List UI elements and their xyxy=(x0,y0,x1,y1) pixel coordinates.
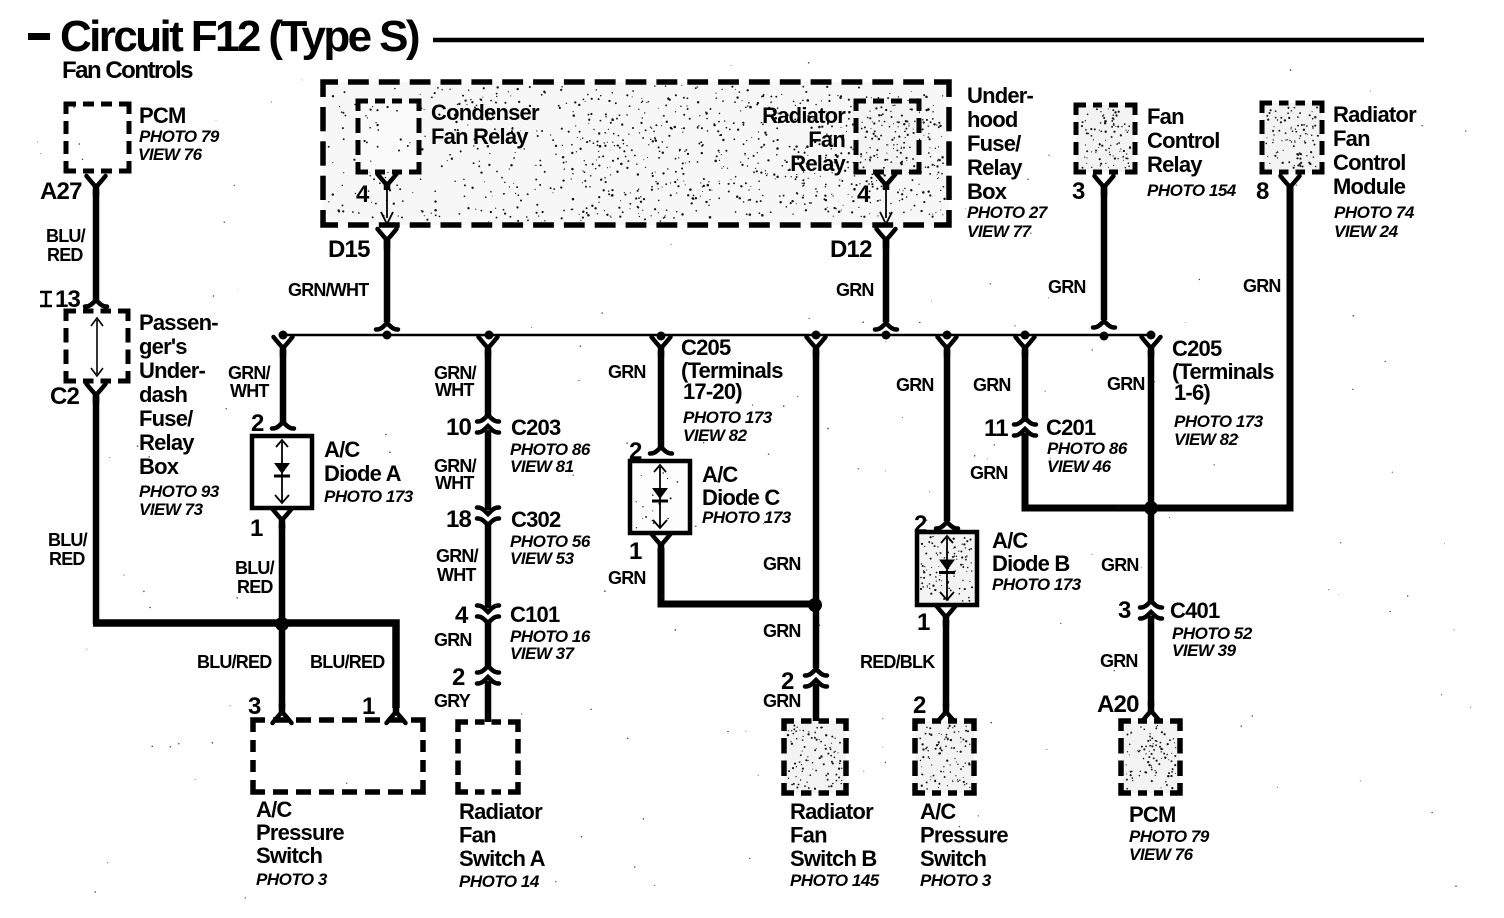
wire A27 BLU/RED vertical xyxy=(93,190,100,300)
svg-text:PHOTO 173: PHOTO 173 xyxy=(324,487,414,506)
connector below bus (C201 branch) xyxy=(1016,337,1035,357)
svg-text:hood: hood xyxy=(967,107,1018,132)
wire: radiator relay pin 4 to box edge (arrow) xyxy=(880,188,892,224)
svg-text:A/C: A/C xyxy=(920,799,956,824)
label RED/BLK xyxy=(860,652,935,672)
label GRN/WHT (above C203) xyxy=(434,363,477,400)
connector D12 at underhood box xyxy=(877,229,896,249)
svg-text:GRN: GRN xyxy=(896,375,934,395)
svg-text:Box: Box xyxy=(139,454,180,479)
svg-text:VIEW 53: VIEW 53 xyxy=(510,549,575,568)
wire GRN/WHT to C203 xyxy=(485,350,492,418)
svg-text:BLU/RED: BLU/RED xyxy=(310,652,385,672)
pin 1 (diode B) xyxy=(917,609,930,636)
svg-text:GRN: GRN xyxy=(1243,276,1281,296)
svg-text:RED: RED xyxy=(237,577,273,597)
wire GRN C201 elbow to C401 wire xyxy=(1025,433,1148,508)
svg-text:Switch: Switch xyxy=(920,846,986,871)
svg-text:GRN: GRN xyxy=(973,375,1011,395)
svg-text:PHOTO 79: PHOTO 79 xyxy=(1129,827,1210,846)
C203 label xyxy=(510,415,591,476)
pin D12 xyxy=(830,236,872,263)
C101 label xyxy=(510,602,591,663)
pin C2 xyxy=(50,383,80,410)
svg-text:GRN: GRN xyxy=(1101,555,1139,575)
svg-text:Fan: Fan xyxy=(808,127,845,152)
in-line connector 13 symbol xyxy=(40,286,81,313)
fan control relay box xyxy=(1076,105,1135,172)
pin 8 (module) xyxy=(1256,178,1269,205)
connector at module pin 8 xyxy=(1281,176,1300,196)
svg-text:PCM: PCM xyxy=(139,103,186,128)
svg-text:A/C: A/C xyxy=(992,528,1028,553)
svg-text:GRN: GRN xyxy=(608,568,646,588)
svg-text:Switch: Switch xyxy=(256,843,322,868)
svg-text:1-6): 1-6) xyxy=(1174,380,1210,405)
svg-text:A20: A20 xyxy=(1097,691,1139,718)
svg-text:PHOTO 173: PHOTO 173 xyxy=(683,408,773,427)
svg-text:GRN: GRN xyxy=(608,362,646,382)
label BLU/RED (pin3) xyxy=(197,652,272,672)
svg-text:PHOTO 27: PHOTO 27 xyxy=(967,203,1049,222)
connector D15 at underhood box xyxy=(378,229,397,249)
svg-text:Passen-: Passen- xyxy=(139,310,218,335)
svg-text:Radiator: Radiator xyxy=(1333,102,1417,127)
connector below bus (diode A branch) xyxy=(274,337,293,357)
junction dot bottom-left xyxy=(275,617,289,631)
svg-text:Diode C: Diode C xyxy=(702,485,780,510)
C302 label xyxy=(510,507,591,568)
fuse element arrow inside passenger box xyxy=(91,318,103,376)
label GRN (below C201) xyxy=(970,463,1008,483)
connector C203 pin 10 xyxy=(446,414,499,441)
junction dot (diode C / switch B) xyxy=(808,598,822,612)
wire GRN bus to junction (C401 branch) xyxy=(1148,350,1155,504)
radiator fan switch A label xyxy=(459,799,546,891)
pin 1 (A/C pressure switch) xyxy=(362,693,375,720)
connector below bus (diode C branch) xyxy=(652,337,671,357)
wire: junction to A/C pressure switch pin 3 xyxy=(279,624,286,708)
label GRN (switch B lower) xyxy=(763,691,801,711)
PCM (top-left) box xyxy=(66,104,129,171)
svg-text:GRN: GRN xyxy=(1048,277,1086,297)
title dash xyxy=(28,33,50,40)
svg-text:Switch A: Switch A xyxy=(459,846,546,871)
svg-text:PHOTO 173: PHOTO 173 xyxy=(702,508,792,527)
C205 (Terminals 17-20) label xyxy=(681,335,783,445)
svg-text:Relay: Relay xyxy=(1147,152,1203,177)
svg-text:PHOTO 86: PHOTO 86 xyxy=(1047,439,1128,458)
svg-text:VIEW 24: VIEW 24 xyxy=(1334,222,1399,241)
radiator fan switch B label xyxy=(790,799,880,890)
svg-text:GRN/: GRN/ xyxy=(436,546,479,566)
wire GRN module pin 8 down to elbow xyxy=(1151,187,1290,508)
connector below bus (diode B branch) xyxy=(938,337,957,357)
label GRY xyxy=(434,691,471,711)
wire D12 GRN to bus xyxy=(875,240,897,330)
label BLU/RED (C2 wire) xyxy=(48,530,88,569)
svg-text:C201: C201 xyxy=(1046,415,1096,440)
passenger's box label xyxy=(139,310,220,519)
connector below diode A xyxy=(273,509,292,529)
connector below bus (C401 branch) xyxy=(1142,337,1161,357)
svg-text:Fan: Fan xyxy=(1147,104,1184,129)
connector below diode C xyxy=(652,534,671,554)
label GRN (switch B upper) xyxy=(763,554,801,574)
svg-text:Fan: Fan xyxy=(1333,126,1370,151)
svg-text:Diode A: Diode A xyxy=(324,461,402,486)
svg-text:RED/BLK: RED/BLK xyxy=(860,652,935,672)
svg-text:Relay: Relay xyxy=(139,430,195,455)
svg-text:Radiator: Radiator xyxy=(459,799,543,824)
svg-text:BLU/: BLU/ xyxy=(235,558,275,578)
radiator fan control module label xyxy=(1333,102,1417,241)
svg-text:GRN/: GRN/ xyxy=(228,363,271,383)
title: Circuit F12 (Type S) xyxy=(60,12,419,61)
bus wire GRN/WHT-GRN horizontal xyxy=(283,334,1151,337)
connector at pressure switch right xyxy=(937,703,956,723)
connector C302 pin 18 xyxy=(446,506,499,533)
label GRN (fan control relay wire) xyxy=(1048,277,1086,297)
connector at condenser relay pin 4 xyxy=(378,174,397,190)
label GRN (diode C branch) xyxy=(608,362,646,382)
svg-text:RED: RED xyxy=(49,549,85,569)
wire GRN C401 to PCM xyxy=(1148,616,1155,706)
connector C101 pin 4 xyxy=(455,602,499,629)
svg-text:VIEW 77: VIEW 77 xyxy=(967,222,1033,241)
svg-text:D15: D15 xyxy=(328,236,370,263)
svg-text:Relay: Relay xyxy=(967,155,1023,180)
condenser fan relay box xyxy=(358,101,419,172)
label GRN (diode B branch) xyxy=(896,375,934,395)
wire GRN fan control relay to bus xyxy=(1093,187,1115,328)
wire GRN to switch B box xyxy=(813,684,820,722)
svg-text:Relay: Relay xyxy=(790,151,846,176)
title rule xyxy=(433,38,1424,43)
label BLU/RED (A27 wire) xyxy=(46,226,86,265)
wire GRN/WHT C302 to C101 xyxy=(485,522,492,608)
svg-text:BLU/RED: BLU/RED xyxy=(197,652,272,672)
svg-text:17-20): 17-20) xyxy=(683,379,742,404)
C201 label xyxy=(1046,415,1128,476)
svg-text:2: 2 xyxy=(452,664,465,691)
svg-text:VIEW 73: VIEW 73 xyxy=(139,500,204,519)
Under-hood Fuse/Relay Box outline xyxy=(323,82,949,225)
A/C Diode B label xyxy=(992,528,1082,594)
connector C201 pin 11 xyxy=(984,415,1036,442)
svg-text:dash: dash xyxy=(139,382,188,407)
wire GRN to diode C xyxy=(650,351,672,454)
svg-text:A/C: A/C xyxy=(324,437,360,462)
A/C Diode A box xyxy=(252,436,312,508)
svg-text:GRN: GRN xyxy=(970,463,1008,483)
svg-text:2: 2 xyxy=(251,410,264,437)
svg-text:Control: Control xyxy=(1333,150,1406,175)
label GRN (above C401) xyxy=(1101,555,1139,575)
svg-text:18: 18 xyxy=(446,506,472,533)
svg-text:Pressure: Pressure xyxy=(256,820,344,845)
C205 (Terminals 1-6) label xyxy=(1172,336,1274,449)
wire GRN to C201 xyxy=(1022,350,1029,422)
svg-text:3: 3 xyxy=(1072,178,1085,205)
radiator fan control module box xyxy=(1262,103,1322,172)
A/C pressure switch (right) label xyxy=(920,799,1008,890)
wire GRY to switch A xyxy=(485,681,492,722)
label BLU/RED (pin1) xyxy=(310,652,385,672)
svg-text:Switch B: Switch B xyxy=(790,846,877,871)
pin 2 (diode B) xyxy=(914,511,927,538)
label GRN/WHT (diode A branch) xyxy=(228,363,271,401)
svg-text:1: 1 xyxy=(917,609,930,636)
A/C Pressure Switch (right) box xyxy=(915,721,974,793)
svg-text:8: 8 xyxy=(1256,178,1269,205)
radiator fan relay label xyxy=(762,103,846,176)
connector below diode B xyxy=(937,606,956,626)
pin A20 xyxy=(1097,691,1139,718)
svg-text:Radiator: Radiator xyxy=(790,799,874,824)
svg-text:PHOTO 3: PHOTO 3 xyxy=(920,871,992,890)
PCM (bottom) label xyxy=(1129,802,1210,864)
svg-text:C302: C302 xyxy=(511,507,561,532)
wire RED/BLK diode B to pressure switch xyxy=(943,620,950,706)
label GRN/WHT (between C302 and C101) xyxy=(436,546,479,585)
bus junction dots xyxy=(279,331,1156,341)
svg-text:GRY: GRY xyxy=(434,691,471,711)
connector at PCM pin A20 xyxy=(1142,702,1161,722)
svg-text:GRN: GRN xyxy=(1100,651,1138,671)
PCM label xyxy=(138,103,220,164)
condenser fan relay label xyxy=(431,100,540,149)
svg-text:GRN: GRN xyxy=(763,621,801,641)
wire GRN to diode B xyxy=(936,350,958,529)
svg-text:VIEW 82: VIEW 82 xyxy=(1174,430,1239,449)
svg-text:PHOTO 154: PHOTO 154 xyxy=(1147,181,1237,200)
connector pin 2 (switch B) xyxy=(781,668,827,695)
wire: condenser relay pin 4 to box edge (arrow) xyxy=(381,188,393,224)
radiator fan relay pin 4 xyxy=(857,181,871,208)
svg-text:GRN: GRN xyxy=(1107,374,1145,394)
connector at C2 xyxy=(87,384,106,404)
svg-text:PHOTO 93: PHOTO 93 xyxy=(139,482,220,501)
svg-text:C2: C2 xyxy=(50,383,80,410)
svg-text:PHOTO 173: PHOTO 173 xyxy=(1174,412,1264,431)
svg-text:Box: Box xyxy=(967,179,1008,204)
wire: horizontal BLU/RED bottom-left xyxy=(93,623,396,708)
svg-text:PHOTO 14: PHOTO 14 xyxy=(459,872,540,891)
Radiator Fan Switch A box xyxy=(458,722,518,792)
svg-text:4: 4 xyxy=(857,181,871,208)
wire GRN diode C elbow to switch B wire xyxy=(661,548,812,604)
pin D15 xyxy=(328,236,370,263)
label GRN (switch B middle) xyxy=(763,621,801,641)
svg-text:VIEW 76: VIEW 76 xyxy=(138,145,203,164)
Passenger's Under-dash Fuse/Relay Box xyxy=(66,311,128,381)
svg-text:PHOTO 74: PHOTO 74 xyxy=(1334,203,1415,222)
radiator fan relay box xyxy=(856,101,919,172)
svg-text:VIEW 81: VIEW 81 xyxy=(510,457,574,476)
svg-text:Under-: Under- xyxy=(967,83,1034,108)
svg-text:VIEW 39: VIEW 39 xyxy=(1172,641,1237,660)
svg-text:10: 10 xyxy=(446,414,472,441)
svg-text:BLU/: BLU/ xyxy=(46,226,86,246)
pin 1 (diode A) xyxy=(250,515,263,542)
connector at pressure switch pin 3 xyxy=(273,703,292,723)
connector at PCM pin A27 xyxy=(87,176,106,196)
svg-text:C205: C205 xyxy=(681,335,731,360)
under-hood fuse/relay box label xyxy=(967,83,1049,241)
A/C pressure switch (left) label xyxy=(256,797,344,889)
svg-text:Fuse/: Fuse/ xyxy=(967,131,1021,156)
label GRN/WHT (between C203 and C302) xyxy=(434,456,477,493)
svg-text:PHOTO 145: PHOTO 145 xyxy=(790,871,880,890)
svg-text:C203: C203 xyxy=(511,415,561,440)
condenser fan relay pin 4 xyxy=(356,181,370,208)
svg-text:1: 1 xyxy=(250,515,263,542)
svg-text:VIEW 82: VIEW 82 xyxy=(683,426,748,445)
svg-text:Fan Relay: Fan Relay xyxy=(431,124,529,149)
wire D15 GRN/WHT to bus xyxy=(376,240,398,330)
pin 2 (pressure switch right) xyxy=(913,692,926,719)
svg-text:PHOTO 3: PHOTO 3 xyxy=(256,870,328,889)
junction dot (C201/module/C401) xyxy=(1144,501,1158,515)
svg-text:GRN: GRN xyxy=(836,280,874,300)
label GRN (above C201) xyxy=(973,375,1011,395)
svg-text:WHT: WHT xyxy=(437,565,476,585)
pin A27 xyxy=(40,178,82,205)
C401 label xyxy=(1170,598,1253,660)
svg-text:Fan: Fan xyxy=(459,823,496,848)
svg-text:Pressure: Pressure xyxy=(920,823,1008,848)
A/C Diode C box xyxy=(630,461,690,533)
wire C2 BLU/RED down-left xyxy=(93,396,100,624)
wire GRN junction to switch B xyxy=(813,605,820,668)
pin 2 (diode A) xyxy=(251,410,264,437)
svg-text:C101: C101 xyxy=(510,602,560,627)
svg-text:GRN: GRN xyxy=(763,554,801,574)
svg-text:Under-: Under- xyxy=(139,358,206,383)
Radiator Fan Switch B box xyxy=(784,721,846,793)
pin 2 (diode C) xyxy=(629,438,642,465)
pin 3 (A/C pressure switch) xyxy=(248,693,261,720)
svg-text:A27: A27 xyxy=(40,178,82,205)
pin 3 (fan control relay) xyxy=(1072,178,1085,205)
wire GRN junction to C401 xyxy=(1148,508,1155,603)
A/C Pressure Switch (left) box xyxy=(253,720,423,792)
svg-text:PHOTO 173: PHOTO 173 xyxy=(992,575,1082,594)
svg-text:3: 3 xyxy=(1118,597,1131,624)
label GRN (below C101) xyxy=(434,630,472,650)
label GRN (module wire) xyxy=(1243,276,1281,296)
svg-text:GRN: GRN xyxy=(434,630,472,650)
svg-text:PCM: PCM xyxy=(1129,802,1176,827)
svg-text:PHOTO 79: PHOTO 79 xyxy=(139,127,220,146)
svg-text:WHT: WHT xyxy=(435,380,474,400)
label GRN (diode C out) xyxy=(608,568,646,588)
A/C Diode A label xyxy=(324,437,414,506)
wire GRN/WHT to diode A xyxy=(272,350,294,429)
svg-text:Circuit F12 (Type S): Circuit F12 (Type S) xyxy=(60,12,419,61)
svg-text:Module: Module xyxy=(1333,174,1406,199)
svg-text:WHT: WHT xyxy=(230,381,269,401)
svg-text:2: 2 xyxy=(913,692,926,719)
connector C401 pin 3 xyxy=(1118,597,1162,624)
svg-text:3: 3 xyxy=(248,693,261,720)
fan control relay label xyxy=(1147,104,1237,200)
wire GRN/WHT C203 to C302 xyxy=(485,430,492,510)
wire BLU/RED diode A to junction xyxy=(279,523,286,620)
svg-text:A/C: A/C xyxy=(702,462,738,487)
svg-text:11: 11 xyxy=(984,415,1008,442)
svg-text:RED: RED xyxy=(47,245,83,265)
svg-text:VIEW 46: VIEW 46 xyxy=(1047,457,1112,476)
svg-text:GRN/WHT: GRN/WHT xyxy=(288,280,369,300)
subtitle: Fan Controls xyxy=(62,57,193,84)
connector below bus (switch A branch) xyxy=(479,337,498,357)
svg-text:D12: D12 xyxy=(830,236,872,263)
svg-text:A/C: A/C xyxy=(256,797,292,822)
svg-text:WHT: WHT xyxy=(435,473,474,493)
A/C Diode C label xyxy=(702,462,792,527)
svg-text:C205: C205 xyxy=(1172,336,1222,361)
connector at fan control relay pin 3 xyxy=(1095,176,1114,196)
wire GRN C101 to pin2 xyxy=(485,620,492,668)
svg-text:1: 1 xyxy=(362,693,375,720)
svg-text:4: 4 xyxy=(455,602,469,629)
svg-text:Condenser: Condenser xyxy=(431,100,540,125)
svg-text:BLU/: BLU/ xyxy=(48,530,88,550)
connector at pressure switch pin 1 xyxy=(387,703,406,723)
label GRN (C401 upper) xyxy=(1107,374,1145,394)
PCM (bottom) box xyxy=(1121,721,1180,793)
svg-text:VIEW 76: VIEW 76 xyxy=(1129,845,1194,864)
label GRN (D12 wire) xyxy=(836,280,874,300)
svg-text:Fan Controls: Fan Controls xyxy=(62,57,193,84)
svg-text:Control: Control xyxy=(1147,128,1220,153)
wire GRN bus to junction (switch B) xyxy=(813,350,820,600)
connector below bus (switch B branch) xyxy=(807,337,826,357)
svg-text:GRN: GRN xyxy=(763,691,801,711)
label GRN/WHT (D15 wire) xyxy=(288,280,369,300)
male connector above passenger box xyxy=(85,300,107,307)
connector pin 2 (switch A) xyxy=(452,664,499,691)
svg-text:Fan: Fan xyxy=(790,823,827,848)
connector at radiator relay pin 4 xyxy=(877,174,896,190)
A/C Diode B box xyxy=(917,532,977,605)
label GRN (above A20) xyxy=(1100,651,1138,671)
label BLU/RED (diode A out) xyxy=(235,558,275,597)
svg-text:Fuse/: Fuse/ xyxy=(139,406,193,431)
svg-text:4: 4 xyxy=(356,181,370,208)
svg-text:1: 1 xyxy=(629,538,642,565)
svg-text:Diode B: Diode B xyxy=(992,551,1070,576)
svg-text:ger's: ger's xyxy=(139,334,187,359)
pin 1 (diode C) xyxy=(629,538,642,565)
svg-text:VIEW 37: VIEW 37 xyxy=(510,644,576,663)
svg-text:Radiator: Radiator xyxy=(762,103,846,128)
svg-text:C401: C401 xyxy=(1170,598,1220,623)
